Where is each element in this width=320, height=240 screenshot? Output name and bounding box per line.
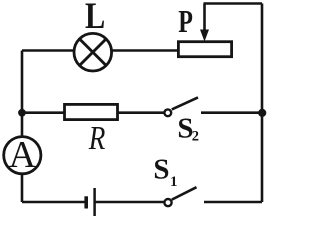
svg-text:1: 1 (170, 174, 178, 190)
svg-text:P: P (178, 5, 193, 40)
svg-text:S: S (153, 154, 169, 186)
svg-text:A: A (9, 134, 37, 176)
svg-text:2: 2 (192, 129, 199, 145)
svg-text:R: R (88, 119, 106, 157)
svg-text:L: L (85, 0, 105, 37)
